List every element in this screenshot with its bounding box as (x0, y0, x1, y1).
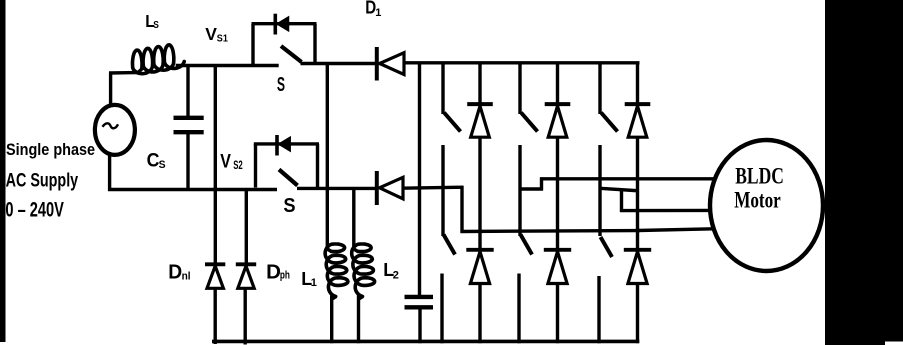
svg-text:nl: nl (182, 270, 191, 282)
svg-text:S: S (283, 194, 295, 217)
svg-text:2: 2 (393, 269, 399, 281)
svg-text:S: S (153, 19, 159, 31)
svg-text:1: 1 (375, 7, 381, 19)
svg-text:ph: ph (280, 269, 290, 281)
svg-text:0 – 240V: 0 – 240V (5, 198, 63, 221)
svg-text:AC Supply: AC Supply (6, 169, 79, 190)
svg-text:V: V (220, 150, 231, 172)
svg-text:Motor: Motor (734, 188, 781, 213)
svg-text:C: C (147, 149, 160, 171)
svg-text:Single phase: Single phase (6, 141, 95, 159)
svg-text:1: 1 (311, 277, 317, 289)
svg-text:S1: S1 (217, 33, 229, 45)
svg-text:V: V (205, 24, 217, 44)
svg-text:D: D (266, 260, 281, 283)
svg-text:S: S (277, 73, 285, 96)
svg-text:BLDC: BLDC (735, 164, 784, 189)
svg-text:S2: S2 (233, 160, 243, 173)
svg-text:D: D (168, 261, 182, 284)
svg-text:S: S (159, 159, 166, 171)
